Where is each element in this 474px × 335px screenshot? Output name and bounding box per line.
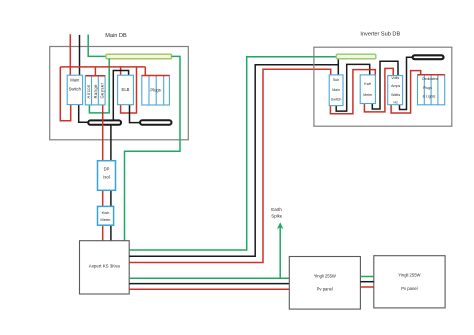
wire green Axpert AC out to sub DB earth bar bbox=[129, 57, 336, 250]
svg-text:Yingli 255W: Yingli 255W bbox=[398, 272, 420, 277]
wire red left loop to Main Switch bottom bbox=[60, 67, 70, 121]
breaker Sub Main Switch bbox=[329, 75, 343, 106]
svg-text:Kwh: Kwh bbox=[102, 210, 110, 215]
svg-text:Earth: Earth bbox=[271, 207, 282, 212]
wire green Axpert PV side to earth spike bbox=[129, 277, 289, 279]
inverter Axpert KS 3Kva bbox=[80, 241, 130, 294]
wire red drop into ELB top bbox=[120, 67, 122, 75]
wire black from neutral bar down to Axpert bbox=[110, 125, 112, 241]
svg-text:Meter: Meter bbox=[363, 93, 373, 97]
svg-text:Geyser: Geyser bbox=[100, 82, 105, 98]
meter Kwh Meter (sub DB) bbox=[360, 75, 375, 104]
svg-text:Plugs: Plugs bbox=[423, 86, 432, 90]
enclosure Main DB bbox=[50, 47, 189, 140]
wire black ELB bottom to right neutral bar bbox=[130, 105, 141, 123]
svg-text:Yingli 255W: Yingli 255W bbox=[314, 274, 336, 279]
wire red Axpert PV to panel bbox=[129, 288, 289, 290]
wire red supply feed into Main Switch top bbox=[69, 34, 71, 75]
svg-text:Main: Main bbox=[70, 78, 80, 83]
neutral bar right (main DB) bbox=[140, 120, 172, 124]
neutral bar left (main DB) bbox=[88, 120, 121, 124]
wire green supply feed to earth bar bbox=[88, 35, 106, 57]
wire green from earth bar right to Axpert bbox=[125, 56, 181, 240]
breaker Dedicated Plugs & Lights bbox=[418, 75, 445, 105]
svg-text:ELB: ELB bbox=[122, 87, 130, 92]
wire black SMS bottom to Kwh meter top bbox=[336, 64, 370, 111]
earth bar (green) sub DB bbox=[336, 54, 375, 59]
wire black ELB top loop to neutral bar bbox=[113, 71, 128, 121]
svg-text:Meter: Meter bbox=[100, 217, 111, 222]
enclosure Inverter Sub DB bbox=[314, 47, 452, 126]
wire red Volts meter to Dedicated plugs bbox=[391, 71, 421, 113]
svg-text:Plugs: Plugs bbox=[150, 87, 160, 92]
wire red drop to Plugs top bbox=[144, 67, 146, 76]
pv panel 2 Yingli 255W bbox=[374, 256, 445, 308]
wire black Axpert PV to panel bbox=[129, 283, 289, 285]
wire black supply feed into Main Switch top bbox=[79, 35, 81, 75]
svg-text:Pv panel: Pv panel bbox=[401, 286, 417, 291]
svg-text:Kwh: Kwh bbox=[364, 82, 371, 86]
wire red from breaker 3 down to Axpert bbox=[102, 105, 104, 241]
svg-text:Switch: Switch bbox=[69, 87, 82, 92]
svg-text:Volts: Volts bbox=[391, 76, 399, 80]
wire red SMS bottom to Kwh meter top bbox=[330, 70, 375, 114]
neutral bar (black) sub DB bbox=[413, 55, 444, 59]
wire green drop inside DB to breaker group bbox=[89, 59, 109, 113]
isolator DP Isol bbox=[98, 161, 116, 191]
svg-text:Amps: Amps bbox=[391, 84, 400, 88]
earth bar (green) main DB bbox=[106, 54, 172, 59]
svg-text:Hz: Hz bbox=[393, 101, 398, 105]
svg-text:Aircon: Aircon bbox=[86, 84, 91, 99]
wire green panel link bbox=[360, 276, 373, 278]
svg-text:& Lights: & Lights bbox=[423, 95, 436, 99]
svg-text:Spike: Spike bbox=[271, 214, 283, 219]
svg-text:Range: Range bbox=[93, 84, 98, 99]
wire black Volts meter to neutral bar bbox=[400, 57, 413, 109]
meter Volts Amps Watts Hz bbox=[388, 76, 403, 105]
wire red panel link bbox=[360, 286, 373, 288]
breaker group Aircon/Range/Geyser bbox=[85, 76, 105, 105]
wire black Axpert AC out to sub DB bbox=[129, 65, 338, 256]
pv panel 1 Yingli 255W bbox=[289, 257, 360, 310]
svg-text:Switch: Switch bbox=[331, 97, 342, 101]
wire red along Dedicated plugs top edge bbox=[418, 74, 445, 76]
wire black Main Switch bottom to neutral bar bbox=[79, 105, 89, 123]
wire black panel link bbox=[360, 281, 373, 283]
svg-text:Main DB: Main DB bbox=[105, 33, 127, 39]
earth spike lead bbox=[279, 228, 281, 279]
meter Kwh Meter (left) bbox=[98, 206, 114, 225]
svg-text:Pv panel: Pv panel bbox=[317, 287, 333, 292]
wire red along Plugs top edge bbox=[142, 75, 170, 77]
svg-text:DP: DP bbox=[104, 166, 110, 171]
svg-text:Inverter Sub DB: Inverter Sub DB bbox=[360, 32, 400, 38]
wire red Axpert AC out to sub DB bbox=[129, 69, 331, 262]
breaker ELB bbox=[118, 75, 134, 105]
earth spike arrowhead bbox=[277, 222, 284, 229]
wire black Kwh meter to Volts meter bbox=[372, 61, 398, 109]
svg-text:Main: Main bbox=[332, 88, 340, 92]
svg-text:Dedicated: Dedicated bbox=[422, 77, 438, 81]
wire red Kwh meter to Volts meter bbox=[364, 68, 393, 112]
svg-text:Sub: Sub bbox=[333, 78, 339, 82]
wire red live bus in main DB bbox=[60, 66, 145, 68]
wire red along breaker group top edge bbox=[85, 75, 105, 77]
breaker Plugs bbox=[142, 76, 170, 106]
wire red ELB bottom loop up to bus bbox=[121, 67, 137, 113]
svg-text:Isol: Isol bbox=[103, 174, 110, 179]
svg-text:Watts: Watts bbox=[391, 93, 400, 97]
breaker Main Switch bbox=[67, 75, 82, 104]
wire black riser sub DB bar to SMS top bbox=[337, 59, 339, 75]
svg-text:Axpert KS 3Kva: Axpert KS 3Kva bbox=[89, 264, 121, 269]
wire red tee to breaker group bbox=[94, 67, 96, 76]
